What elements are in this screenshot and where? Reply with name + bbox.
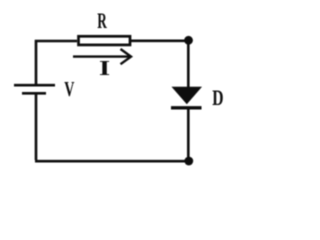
label I [99,57,110,80]
diode D1 cathode bar [171,106,202,109]
label R [97,8,107,32]
node top junction [184,36,193,45]
node bottom junction [184,157,193,166]
svg-text:I: I [99,57,110,80]
battery V positive plate (long) [14,84,55,87]
svg-text:D: D [212,86,223,110]
current arrow I head [121,49,132,64]
svg-text:V: V [64,77,74,100]
wire resistor to top junction [131,39,187,42]
resistor R1 body [79,36,131,45]
diode D1 triangle (anode) [172,87,203,105]
wire top junction down to diode anode [187,41,190,88]
wire bottom horizontal [35,160,188,163]
label D [212,86,223,110]
battery V negative plate (short) [22,92,46,95]
label V [64,77,74,100]
wire top-left horizontal (battery top to resistor) [36,41,77,84]
wire left vertical lower (battery minus to bottom wire) [35,94,38,160]
wire diode cathode to bottom junction [187,108,190,161]
current arrow I shaft [73,55,131,57]
svg-text:R: R [97,8,107,32]
